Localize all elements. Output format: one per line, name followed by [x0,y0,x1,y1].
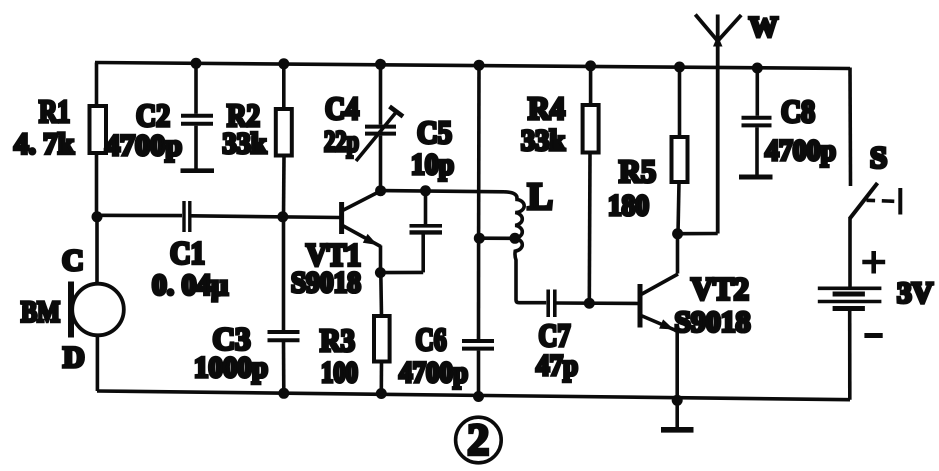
svg-text:4. 7k: 4. 7k [14,128,74,161]
svg-text:S: S [870,140,887,175]
node junction C6 bottom [473,391,484,402]
svg-text:W: W [749,12,778,44]
svg-text:2: 2 [467,415,489,464]
transistor VT2 [640,234,678,401]
svg-text:100: 100 [321,356,358,389]
svg-text:180: 180 [608,189,649,222]
svg-text:R4: R4 [528,90,565,126]
svg-text:C1: C1 [170,235,205,271]
svg-text:4700p: 4700p [105,129,182,162]
svg-text:R5: R5 [619,153,656,189]
microphone BM electret [71,217,124,391]
node junction R2 top [278,58,289,69]
svg-text:R3: R3 [320,322,355,358]
capacitor C7 [548,290,638,318]
node junction C3 bottom [278,388,289,399]
node junction mid top [474,60,485,71]
antenna W [695,15,741,234]
node junction VT2 collector [672,228,683,239]
transistor VT1 [342,191,382,273]
resistor R3 [374,273,390,394]
node junction C2 top [191,58,202,69]
node junction L tap right [509,233,520,244]
wire top supply rail [95,63,850,69]
node junction C4 top [375,59,386,70]
svg-text:4700p: 4700p [765,134,836,167]
svg-text:R1: R1 [39,93,70,129]
node junction L tap left [474,233,485,244]
svg-text:47p: 47p [536,349,578,382]
node junction R1/C1 [92,211,103,222]
svg-text:C4: C4 [325,90,359,126]
svg-text:3V: 3V [897,277,933,310]
wire VT1 collector to L [381,191,505,192]
capacitor C1 with series wire [97,201,340,232]
trimmer capacitor C4 [356,64,403,190]
battery minus sign [864,333,882,338]
wire collector to antenna [678,232,718,236]
node junction R5 top [674,62,685,73]
svg-text:C2: C2 [136,97,170,133]
wire bottom ground rail [97,391,850,400]
capacitor C6 [462,341,494,397]
svg-text:C5: C5 [417,114,452,150]
node junction C8 top [752,63,763,74]
svg-text:0. 04μ: 0. 04μ [152,269,228,302]
node junction R2/C1 [277,211,288,222]
capacitor C2 [181,63,215,170]
figure number circled 2 [456,415,502,464]
svg-text:10p: 10p [411,148,454,181]
node junction R4 top [585,60,596,71]
resistor R4 [583,66,599,303]
resistor R1 [90,63,107,218]
svg-text:1000p: 1000p [194,351,268,384]
svg-text:C: C [62,244,84,277]
svg-text:22p: 22p [324,125,359,158]
svg-text:C7: C7 [539,317,571,353]
svg-text:S9018: S9018 [675,306,751,339]
resistor R2 [276,64,292,217]
switch S [850,68,901,219]
resistor R5 [672,67,688,234]
node junction C5 top [420,185,431,196]
svg-text:C6: C6 [416,321,447,357]
svg-text:S9018: S9018 [291,266,361,299]
svg-text:VT2: VT2 [691,271,749,307]
node junction VT1 emitter [375,267,386,278]
svg-text:33k: 33k [521,124,565,157]
svg-text:L: L [528,176,553,218]
capacitor C8 [739,68,773,177]
battery 3V [818,217,882,400]
svg-text:D: D [63,341,85,374]
node junction VT1 collector [375,185,386,196]
svg-text:BM: BM [21,296,60,329]
svg-text:C8: C8 [781,93,815,129]
capacitor C3 [268,217,300,394]
capacitor C5 [381,191,443,273]
inductor L tapped coil [479,192,546,303]
wire mid vertical branch [477,65,481,339]
node junction C7/R4 [584,298,595,309]
battery plus sign [862,251,885,274]
node junction R3 bottom [376,388,387,399]
node junction emitter ground rail [672,395,683,406]
svg-text:4700p: 4700p [399,356,468,389]
ground terminal bar [661,401,694,430]
svg-text:33k: 33k [223,127,267,160]
